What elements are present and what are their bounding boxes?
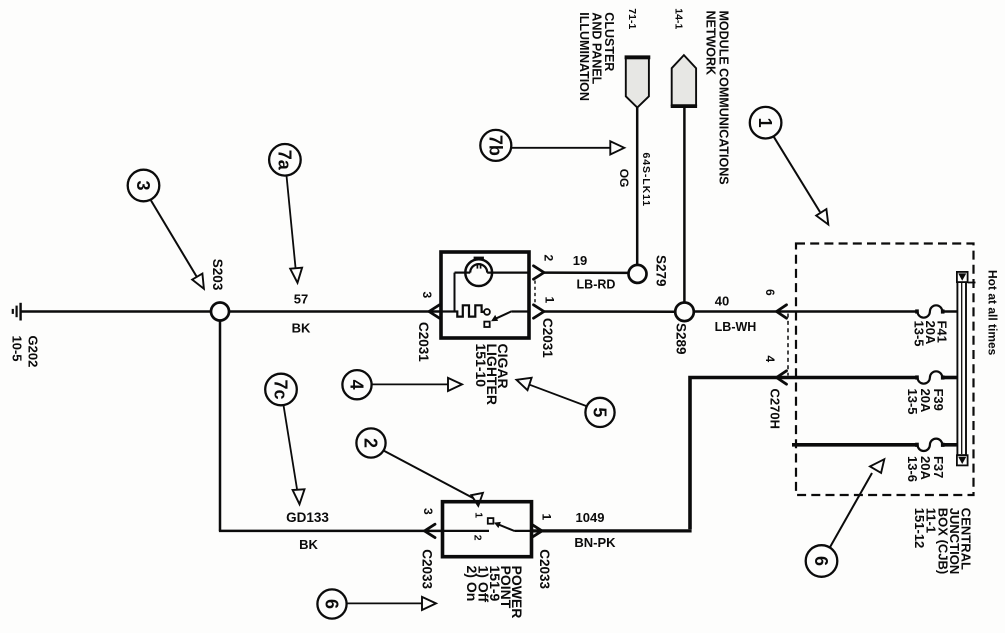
wire switch to pin 1 power point — [515, 530, 532, 532]
fuse F39 — [915, 371, 944, 383]
svg-text:7b: 7b — [485, 135, 505, 156]
pin 4 arrow — [777, 371, 787, 384]
wire S289 to cigar pin 1 — [544, 310, 676, 313]
label GD133 BK — [286, 510, 329, 552]
wire F41 fuse feed — [777, 310, 958, 313]
label CENTRAL JUNCTION BOX (CJB) 11-1 151-12 — [912, 508, 973, 574]
callout 6 lower — [317, 589, 436, 618]
wire 40 LB-WH — [694, 310, 777, 313]
svg-text:5: 5 — [590, 407, 610, 417]
svg-text:BK: BK — [299, 537, 318, 552]
pin 1 arrow — [534, 305, 545, 318]
wire ground to S203 — [21, 310, 211, 313]
svg-text:C270H: C270H — [767, 389, 782, 429]
svg-text:13-5: 13-5 — [905, 389, 920, 415]
callout 7a — [269, 144, 302, 283]
power point box — [443, 502, 532, 557]
svg-text:10-5: 10-5 — [10, 336, 25, 362]
svg-text:13-5: 13-5 — [912, 321, 927, 347]
callout 3 — [128, 170, 204, 289]
svg-text:40: 40 — [715, 293, 729, 308]
svg-text:OG: OG — [617, 169, 631, 188]
callout 6 right — [806, 459, 885, 577]
bus bar terminal top — [957, 272, 968, 282]
label 1049 BN-PK — [574, 510, 616, 550]
svg-text:64S-LK11: 64S-LK11 — [640, 153, 652, 207]
svg-text:BK: BK — [292, 321, 311, 336]
svg-text:MODULE COMMUNICATIONS: MODULE COMMUNICATIONS — [717, 11, 731, 185]
label 40 LB-WH — [715, 293, 757, 334]
switch arm power point — [494, 522, 515, 531]
label 57 BK — [292, 292, 311, 336]
svg-text:14-1: 14-1 — [672, 8, 684, 29]
label F39 20A 13-5 — [905, 389, 946, 415]
svg-text:151-10: 151-10 — [473, 344, 489, 388]
wire pin4 to F39 fuse — [777, 376, 958, 380]
wire bottom rail GD133 — [219, 530, 442, 533]
svg-text:6: 6 — [811, 556, 831, 566]
wire power point pin 3 internal — [443, 530, 490, 532]
svg-text:3: 3 — [420, 292, 434, 299]
svg-text:1: 1 — [472, 512, 484, 518]
pin 6 arrow — [777, 305, 787, 318]
svg-text:Hot at all times: Hot at all times — [985, 270, 999, 356]
wire F37 fuse feed — [792, 443, 957, 447]
svg-text:S279: S279 — [653, 255, 668, 287]
connector C2031 dashed link — [534, 281, 536, 304]
svg-text:1049: 1049 — [576, 510, 605, 525]
wire 14-1 down to S289 — [683, 106, 686, 302]
label 19 LB-RD — [573, 253, 616, 292]
label CLUSTER AND PANEL ILLUMINATION — [577, 12, 616, 101]
splice S279 — [629, 265, 647, 283]
label POWER POINT 151-9 1) Off 2) On — [464, 566, 525, 619]
svg-text:GD133: GD133 — [286, 510, 329, 525]
svg-text:1: 1 — [543, 297, 557, 304]
svg-text:4: 4 — [763, 356, 777, 363]
wire switch to pin 1 — [512, 310, 529, 312]
label F37 20A 13-6 — [905, 456, 946, 482]
svg-text:7a: 7a — [274, 150, 294, 171]
svg-text:LB-RD: LB-RD — [577, 278, 616, 292]
bus bar — [957, 282, 966, 455]
svg-text:151-12: 151-12 — [912, 508, 927, 548]
label F41 20A 13-5 — [912, 321, 950, 347]
svg-text:71-1: 71-1 — [626, 8, 638, 29]
wire pin4 corner down to bottom rail — [690, 378, 777, 530]
pin 3 arrow power point — [425, 524, 436, 537]
central junction box dashed border — [796, 244, 974, 496]
wire 1049 BN-PK — [532, 529, 692, 532]
switch contact square power point — [488, 518, 494, 524]
svg-text:19: 19 — [573, 253, 587, 268]
callout 7c — [265, 374, 304, 505]
svg-text:3: 3 — [133, 180, 153, 190]
wire S203 down to bottom rail — [219, 321, 222, 531]
cigar lighter box — [441, 252, 529, 338]
callout 2 — [356, 428, 483, 505]
svg-text:ILLUMINATION: ILLUMINATION — [577, 12, 591, 101]
svg-text:BN-PK: BN-PK — [574, 535, 616, 550]
heater contact circle — [484, 309, 490, 315]
svg-text:4: 4 — [347, 380, 367, 390]
bus bar terminal bottom — [957, 455, 968, 465]
splice S203 — [211, 303, 229, 321]
pin 2 arrow — [534, 266, 545, 279]
callout 7b — [480, 130, 624, 161]
svg-text:C2033: C2033 — [537, 549, 552, 589]
svg-text:7c: 7c — [271, 379, 291, 399]
svg-text:6: 6 — [763, 289, 777, 296]
wire 19 LB-RD — [544, 271, 629, 274]
label MODULE COMMUNICATIONS NETWORK — [703, 11, 730, 185]
svg-text:2: 2 — [542, 255, 556, 262]
wire 64S-LK11 OG — [636, 108, 639, 265]
svg-text:LB-WH: LB-WH — [715, 320, 757, 334]
callout 5 — [517, 378, 615, 427]
pin 1 arrow power point — [532, 524, 543, 537]
svg-text:C2033: C2033 — [420, 549, 435, 589]
connector C270H dashed link — [787, 314, 789, 376]
svg-text:S203: S203 — [210, 259, 225, 291]
svg-text:2: 2 — [472, 535, 484, 541]
switch contact square — [484, 322, 489, 327]
label CIGAR LIGHTER 151-10 — [473, 344, 511, 405]
ground G202 — [13, 303, 21, 321]
svg-text:57: 57 — [294, 292, 308, 307]
svg-text:3: 3 — [421, 508, 435, 515]
svg-text:S289: S289 — [673, 323, 688, 355]
pin 3 arrow C2031 — [429, 305, 440, 318]
splice S289 — [675, 303, 694, 322]
off-page connector 71-1 — [625, 57, 651, 107]
svg-text:1: 1 — [540, 514, 554, 521]
svg-text:2: 2 — [361, 438, 381, 448]
svg-text:C2031: C2031 — [540, 318, 555, 358]
lamp symbol — [455, 257, 530, 286]
wire bus bar to hot feed — [968, 282, 976, 284]
switch arm — [491, 311, 512, 321]
svg-text:13-6: 13-6 — [905, 456, 920, 482]
callout 4 — [342, 370, 462, 399]
callout 1 — [750, 107, 829, 225]
svg-text:6: 6 — [322, 599, 342, 609]
svg-text:2) On: 2) On — [464, 566, 480, 602]
label G202 10-5 — [10, 336, 41, 368]
off-page connector 14-1 — [671, 55, 697, 106]
wire lamp leg down — [454, 273, 456, 312]
fuse F41 — [915, 305, 944, 317]
svg-text:C2031: C2031 — [416, 322, 431, 362]
svg-text:NETWORK: NETWORK — [703, 11, 717, 76]
svg-text:1: 1 — [755, 118, 775, 128]
wire S203 to cigar lighter pin 3 — [229, 310, 441, 313]
fuse F37 — [915, 439, 944, 451]
svg-text:G202: G202 — [26, 336, 41, 368]
heater element — [441, 305, 484, 316]
